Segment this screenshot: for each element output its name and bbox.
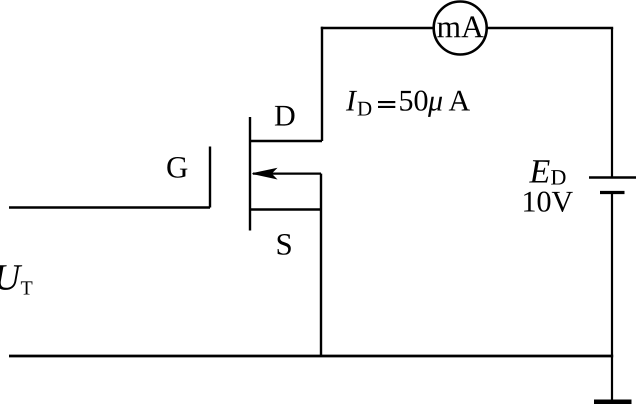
battery long plate (+) bbox=[589, 176, 636, 179]
battery ED bbox=[589, 178, 636, 193]
body-source link bbox=[320, 174, 322, 210]
source stub bbox=[250, 208, 321, 210]
ammeter M1 (mA) bbox=[434, 2, 487, 55]
label: 10V bbox=[524, 192, 573, 213]
substrate arrow lead bbox=[253, 173, 321, 175]
wire: top rail, drain corner to ammeter bbox=[321, 27, 433, 30]
channel bar bbox=[249, 117, 251, 231]
wire: right vertical, top rail to battery + bbox=[611, 28, 613, 178]
label: UT bbox=[0, 265, 22, 290]
drain stub bbox=[250, 140, 322, 142]
wire: gate lead bbox=[9, 206, 210, 208]
wire: drain vertical riser bbox=[321, 27, 323, 141]
label: pin S bbox=[278, 234, 291, 255]
transistor Q1: N-channel MOSFET bbox=[210, 117, 322, 231]
battery short plate (-) bbox=[600, 191, 625, 194]
label: pin D bbox=[275, 106, 295, 126]
label: pin G bbox=[167, 157, 187, 178]
wire: bottom rail bbox=[9, 355, 613, 358]
substrate arrowhead bbox=[253, 169, 277, 179]
gate bar bbox=[209, 147, 211, 208]
wire: source vertical to bottom rail bbox=[320, 210, 322, 357]
label: ED bbox=[529, 160, 550, 182]
label: ID = 50 uA bbox=[346, 91, 357, 111]
ground bbox=[594, 400, 632, 404]
wire: top rail, ammeter to top-right corner bbox=[488, 27, 614, 30]
wire: right vertical, battery - to ground bbox=[611, 193, 613, 401]
